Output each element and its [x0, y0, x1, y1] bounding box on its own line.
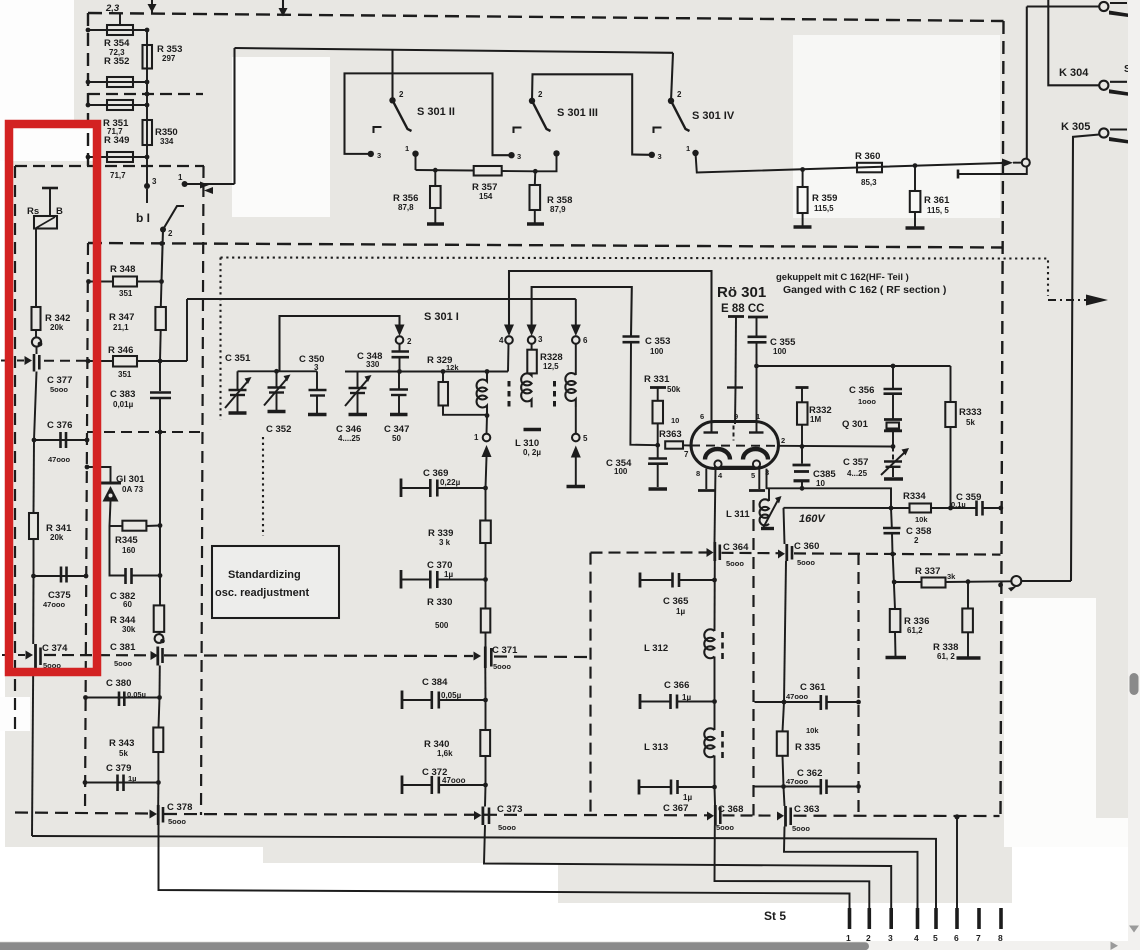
svg-text:7: 7	[684, 450, 689, 459]
left section dashed border x=203	[201, 166, 204, 815]
wire R349 row	[88, 156, 147, 158]
svg-text:4: 4	[499, 336, 504, 345]
tube cathode arc right	[743, 449, 768, 460]
ground bar R358	[527, 222, 544, 226]
wire C380 row	[86, 697, 160, 699]
wire 160V rail down column	[784, 508, 785, 544]
connector St5 pin stubs	[850, 908, 1002, 929]
wire bottom rail from C374	[32, 836, 936, 908]
wire tank row y=371.5	[345, 371, 508, 373]
svg-text:R 361: R 361	[924, 195, 950, 206]
resistor R334	[910, 504, 932, 513]
svg-text:60: 60	[123, 600, 132, 609]
wire osc line y=271	[509, 271, 712, 433]
wire R343 to C379	[157, 752, 159, 783]
capacitor C371 plates	[484, 647, 487, 669]
tube grid line dashes inside	[691, 445, 778, 447]
svg-text:334: 334	[160, 137, 174, 146]
wire corner R346 up to osc line	[186, 299, 188, 361]
bottom scrollbar thumb	[0, 942, 869, 950]
svg-text:5k: 5k	[119, 749, 128, 758]
capacitor C382 plates	[124, 568, 127, 584]
right scrollbar track	[1128, 0, 1140, 950]
svg-text:20k: 20k	[50, 533, 64, 542]
svg-text:5ooo: 5ooo	[114, 659, 132, 668]
svg-text:87,8: 87,8	[398, 203, 414, 212]
dashed bus y=815 right part	[164, 814, 708, 815]
wire contact6 to coil	[575, 344, 577, 375]
inner dashed vertical x=87	[85, 243, 88, 813]
junction C367	[712, 785, 717, 790]
capacitor C358	[890, 508, 893, 527]
junction C352 stem	[274, 369, 279, 374]
wire vertical x=1027	[1026, 7, 1028, 159]
svg-text:500: 500	[435, 621, 449, 630]
switch S301-I contact 6 arrow	[571, 325, 581, 337]
inductor L311	[768, 488, 770, 501]
svg-text:115,5: 115,5	[814, 204, 834, 213]
capacitor C368 arrow	[707, 812, 714, 821]
capacitor C369	[401, 487, 430, 489]
wire C375 row	[34, 575, 87, 577]
wire top cut-off mark	[151, 0, 153, 14]
tube center divider dashes	[733, 426, 735, 441]
capacitor C385	[801, 446, 803, 463]
wire y=508 160V rail	[784, 507, 910, 509]
svg-text:297: 297	[162, 54, 176, 63]
dashed vertical x=858	[857, 553, 859, 816]
tube cathode circle right	[753, 460, 760, 467]
L310 bottom bar	[524, 428, 542, 432]
junction C379 right	[156, 780, 161, 785]
svg-text:C 366: C 366	[664, 680, 689, 691]
switch S301-II lever	[393, 100, 412, 131]
junction R348 right	[159, 279, 164, 284]
svg-text:R 359: R 359	[812, 193, 837, 204]
svg-text:1: 1	[474, 433, 479, 442]
junction dots resistor bank	[86, 28, 150, 160]
resistor R354	[107, 25, 133, 35]
resistor R345	[122, 521, 146, 531]
junction C379 left	[83, 780, 88, 785]
svg-text:0, 2µ: 0, 2µ	[523, 448, 541, 457]
junction bus pin6	[954, 814, 959, 819]
resistor R341	[29, 513, 38, 539]
tube grid bar left	[704, 431, 719, 433]
switch S301-III contact1 dot	[553, 150, 559, 156]
svg-text:5k: 5k	[966, 418, 975, 427]
jack K303	[1099, 2, 1108, 11]
switch S301-II pole riser	[391, 50, 393, 100]
wire R335 column to C363	[784, 787, 785, 807]
capacitor C378 arrow	[150, 810, 158, 819]
wire bus to pin6	[956, 817, 958, 908]
wire C379 row	[85, 782, 158, 784]
svg-text:12,5: 12,5	[543, 362, 559, 371]
crystal Q301	[884, 418, 902, 421]
wire C378 to pin1	[159, 825, 850, 908]
svg-text:85,3: 85,3	[861, 178, 877, 187]
white patches in scan	[0, 0, 74, 161]
wire R348 row	[89, 281, 114, 283]
resistor R348	[113, 277, 137, 287]
wire C367 junction down to C368	[714, 787, 717, 805]
wire C376 row	[34, 439, 87, 441]
svg-text:1µ: 1µ	[682, 693, 691, 702]
svg-text:3 k: 3 k	[439, 538, 451, 547]
svg-text:B: B	[56, 206, 63, 217]
capacitor C361 plates	[819, 695, 822, 710]
wire coil to contact5	[575, 407, 577, 434]
dotted coupling line right step	[1004, 259, 1049, 297]
wire C377 to C376	[34, 372, 37, 441]
wire coil to contact 1	[486, 416, 489, 434]
capacitor C367 left terminal	[638, 780, 641, 795]
resistor R360	[857, 163, 882, 173]
junction C372	[483, 783, 488, 788]
wire K305 down to R337 line	[1071, 135, 1099, 582]
dashed bus y=360 left of C377	[1, 360, 24, 362]
tube pin8 stem and bar	[705, 469, 707, 489]
jack circle at R342 bottom	[32, 337, 41, 346]
top dashed border	[88, 13, 1004, 21]
inductor L310	[521, 373, 531, 407]
capacitor C364 arrow	[707, 548, 714, 557]
capacitor C377 arrow	[25, 356, 33, 365]
resistor R353	[143, 45, 153, 69]
junction C375 left	[31, 574, 36, 579]
contact 3 hook S301-IV	[654, 128, 662, 134]
svg-text:L 311: L 311	[726, 509, 750, 520]
svg-text:47ooo: 47ooo	[786, 692, 809, 701]
svg-text:10k: 10k	[806, 726, 819, 735]
svg-text:5ooo: 5ooo	[50, 385, 68, 394]
dashed bus y=655 left	[2, 654, 25, 656]
junction R359 top	[800, 167, 805, 172]
capacitor C369 left terminal	[400, 479, 403, 498]
svg-text:C 356: C 356	[849, 385, 874, 396]
svg-text:3: 3	[314, 363, 319, 372]
svg-text:6: 6	[583, 336, 588, 345]
resistor R332 top bar	[796, 386, 809, 389]
junction dot bI on dashed border	[159, 241, 164, 246]
contact 3 hook S301-III	[514, 128, 522, 134]
junction C361 right	[856, 700, 861, 705]
svg-text:61,2: 61,2	[907, 626, 923, 635]
svg-text:R 331: R 331	[644, 374, 670, 385]
capacitor C380 plates	[118, 692, 121, 707]
capacitor C355 top bar	[748, 316, 768, 319]
svg-text:351: 351	[118, 370, 132, 379]
svg-text:E 88 CC: E 88 CC	[721, 303, 764, 315]
svg-text:Q 301: Q 301	[842, 419, 869, 430]
ground bar contact5	[567, 485, 586, 489]
svg-text:C 371: C 371	[492, 645, 518, 656]
trimmer C346	[357, 372, 359, 388]
svg-text:5ooo: 5ooo	[797, 558, 815, 567]
capacitor C355	[756, 317, 758, 336]
svg-text:2,3: 2,3	[105, 3, 120, 14]
svg-text:0A 73: 0A 73	[122, 485, 144, 494]
node 1 of switch bI	[182, 181, 188, 187]
wire contact4 to tank	[507, 344, 510, 372]
junction C348 bottom	[397, 369, 402, 374]
switch S301-IV lever	[671, 101, 690, 131]
left section dashed border x=15	[14, 166, 16, 730]
svg-text:5ooo: 5ooo	[726, 559, 744, 568]
relay Rs top bar	[42, 187, 58, 190]
svg-text:R 335: R 335	[795, 742, 821, 753]
junction C376 right	[85, 438, 90, 443]
svg-text:50: 50	[392, 434, 401, 443]
svg-text:100: 100	[773, 347, 787, 356]
inductor right tank coil	[565, 373, 575, 407]
wire R352 row	[88, 81, 147, 83]
svg-text:R 347: R 347	[109, 312, 134, 323]
junction R361 top	[913, 163, 918, 168]
svg-text:4...25: 4...25	[847, 469, 868, 478]
wire contact1 down to C369	[486, 457, 487, 488]
dashed bus y=552	[591, 551, 709, 553]
svg-text:0,01µ: 0,01µ	[113, 400, 134, 409]
bottom scrollbar track	[0, 941, 1128, 950]
capacitor C360 arrow	[778, 550, 785, 559]
wire stub below connector	[958, 167, 1027, 174]
wire contact2 to C348	[399, 344, 401, 351]
svg-text:3: 3	[377, 151, 381, 160]
svg-text:10k: 10k	[915, 515, 928, 524]
box Standardizing osc readjustment	[212, 546, 339, 618]
switch S301-III bracket to S301-IV contact3	[532, 74, 650, 155]
wire R341 to C375	[33, 539, 35, 576]
svg-text:5ooo: 5ooo	[498, 823, 516, 832]
junction C382 right	[158, 573, 163, 578]
resistor R333	[950, 366, 952, 402]
wire contact6 riser	[575, 299, 577, 325]
svg-text:1M: 1M	[810, 415, 821, 424]
capacitor C365	[640, 579, 672, 581]
svg-text:C 383: C 383	[110, 389, 135, 400]
junction C369	[483, 486, 488, 491]
wire relay to R342	[35, 229, 37, 308]
svg-text:2: 2	[914, 536, 919, 545]
resistor R335	[783, 702, 785, 731]
junction R345 right	[158, 523, 163, 528]
dashed bus y=655 C374 to C381	[44, 654, 150, 656]
svg-text:R334: R334	[903, 491, 926, 502]
dashed vertical x=590	[589, 553, 591, 816]
svg-text:8: 8	[696, 469, 700, 478]
svg-text:C 373: C 373	[497, 804, 522, 815]
svg-text:3: 3	[538, 335, 543, 344]
resistor R352	[107, 77, 133, 87]
svg-text:C 365: C 365	[663, 596, 689, 607]
resistor R336	[893, 554, 895, 609]
switch S301-I contact 3 arrow	[527, 325, 537, 337]
ground bar R336	[886, 656, 907, 660]
contact 1 dot S301-II	[412, 151, 418, 157]
wire bI pole down	[162, 230, 164, 282]
svg-text:154: 154	[479, 192, 493, 201]
svg-text:30k: 30k	[122, 625, 136, 634]
dashed right border x=1003	[1001, 21, 1004, 816]
svg-text:1,6k: 1,6k	[437, 749, 453, 758]
switch S301-II bracket contact3	[345, 73, 511, 155]
resistor R356	[434, 170, 436, 186]
wire R345 left down to C382	[110, 526, 126, 576]
svg-text:160: 160	[122, 546, 136, 555]
junction C384	[483, 698, 488, 703]
svg-text:2: 2	[781, 436, 785, 445]
svg-text:C 367: C 367	[663, 803, 688, 814]
switch S301-I contact 6 circle	[572, 336, 580, 344]
capacitor C354	[657, 445, 659, 457]
junction C357 top	[891, 444, 896, 449]
resistor R331 top bar	[650, 386, 666, 389]
svg-text:R 348: R 348	[110, 264, 135, 275]
ground bar R359	[794, 225, 812, 229]
capacitor C364 plates	[713, 542, 716, 561]
svg-text:115, 5: 115, 5	[927, 206, 949, 215]
svg-text:L 313: L 313	[644, 742, 668, 753]
svg-text:10: 10	[816, 479, 825, 488]
wire top bus y=50	[235, 48, 674, 53]
wire pin4 column down	[714, 561, 716, 631]
capacitor C370	[401, 579, 430, 581]
ground bar R361	[906, 226, 925, 230]
wire C373 to pin3	[484, 825, 891, 908]
capacitor C375 plates	[60, 567, 63, 583]
inductor osc coil	[477, 372, 487, 416]
svg-text:47ooo: 47ooo	[786, 777, 809, 786]
tube pin3 wire	[767, 469, 892, 508]
svg-text:C 357: C 357	[843, 457, 868, 468]
resistor R363	[665, 441, 683, 448]
junction C385 bottom	[800, 486, 805, 491]
svg-text:0,1µ: 0,1µ	[951, 500, 966, 509]
ground bar R338	[957, 656, 981, 660]
resistor R347	[155, 307, 166, 330]
wire C360 plate down column to C361	[784, 561, 786, 702]
wire rail R348 to R347	[160, 282, 163, 308]
capacitor C370 left terminal	[400, 570, 403, 589]
tube Ro301 envelope	[691, 422, 778, 469]
contact 3 hook S301-II	[374, 127, 382, 133]
junction C383 bus	[158, 430, 163, 435]
wire grid line to C357 node	[778, 445, 893, 448]
svg-text:47ooo: 47ooo	[48, 455, 71, 464]
svg-text:2: 2	[407, 337, 412, 346]
ground bar R356	[427, 222, 444, 226]
switch S301-III lever	[532, 101, 551, 131]
capacitor C376 plates	[59, 432, 62, 448]
junction R358 top	[533, 169, 538, 174]
svg-text:R 330: R 330	[427, 597, 452, 608]
relay Rs coil box	[34, 216, 57, 229]
capacitor C365 left terminal	[639, 573, 642, 588]
junction C365	[712, 578, 717, 583]
tube shield terminal top	[728, 315, 744, 318]
junction C355 node	[754, 364, 759, 369]
wire diode to R345	[110, 502, 111, 527]
capacitor C384 left terminal	[401, 691, 404, 710]
svg-text:C 379: C 379	[106, 763, 131, 774]
svg-text:5ooo: 5ooo	[168, 817, 186, 826]
wire top stub arrow at x=152	[148, 4, 157, 13]
wire rail x=160 bus432 to R344	[159, 432, 161, 605]
relay Rs stem	[49, 188, 51, 216]
resistor R349	[107, 152, 133, 162]
wire C353 down to R363 node	[630, 342, 657, 445]
svg-text:St 5: St 5	[764, 909, 786, 923]
svg-text:20k: 20k	[50, 323, 64, 332]
svg-text:C 374: C 374	[42, 643, 68, 654]
svg-text:1: 1	[178, 173, 183, 182]
node 2 of bI	[160, 227, 166, 233]
wire to jack K303	[1027, 5, 1099, 7]
connector circle at R337 output	[1011, 576, 1021, 586]
svg-text:21,1: 21,1	[113, 323, 129, 332]
svg-text:1: 1	[405, 144, 409, 153]
contact 5 arrow up	[571, 446, 581, 458]
wire osc cap row left	[238, 370, 318, 372]
wire y=366 to R333	[757, 365, 951, 367]
capacitor C372	[402, 784, 432, 786]
resistor R332	[801, 388, 803, 403]
wire C368 to pin2	[715, 826, 870, 909]
wire R345 row	[110, 525, 123, 527]
capacitor C374 plates	[34, 644, 37, 669]
wire to diode Gl301	[87, 467, 111, 482]
capacitor C347	[398, 372, 400, 390]
svg-text:C 353: C 353	[645, 336, 670, 347]
wire C375 to C374	[32, 576, 34, 644]
wire bI contact1 to riser	[185, 183, 235, 185]
dashed y=94 in resistor bank	[88, 93, 203, 95]
resistor R350	[143, 120, 153, 145]
capacitor C366	[640, 701, 670, 703]
switch S301-III pole dot	[529, 98, 535, 104]
junction R333 bottom	[948, 506, 953, 511]
junction C370	[483, 577, 488, 582]
wire C348 down	[399, 357, 401, 371]
svg-text:R345: R345	[115, 535, 138, 546]
capacitor C362 row	[755, 786, 821, 788]
contact 3 dot S301-II	[368, 151, 374, 157]
resistor R328	[531, 344, 533, 350]
svg-text:47ooo: 47ooo	[43, 600, 66, 609]
trimmer C357	[892, 447, 894, 461]
svg-text:3k: 3k	[947, 572, 956, 581]
wire R354 row	[88, 29, 147, 31]
capacitor C373 plates	[481, 807, 484, 826]
dashed border y=243	[88, 243, 1004, 248]
wire R342 to jack	[35, 330, 37, 337]
svg-text:100: 100	[614, 467, 628, 476]
svg-text:R 346: R 346	[108, 345, 133, 356]
svg-text:2: 2	[168, 229, 173, 238]
svg-text:4....25: 4....25	[338, 434, 361, 443]
wire resistor row R356 R357 R358	[416, 169, 474, 172]
svg-text:3: 3	[517, 152, 521, 161]
svg-text:C 360: C 360	[794, 541, 819, 552]
right scrollbar down arrow	[1129, 926, 1139, 933]
resistor R358	[534, 171, 537, 185]
dashed bus y=816 segment right	[794, 815, 1000, 817]
capacitor C360 plates	[785, 544, 788, 561]
capacitor C378 plates	[157, 805, 160, 825]
wire C372 to C373	[484, 785, 487, 807]
